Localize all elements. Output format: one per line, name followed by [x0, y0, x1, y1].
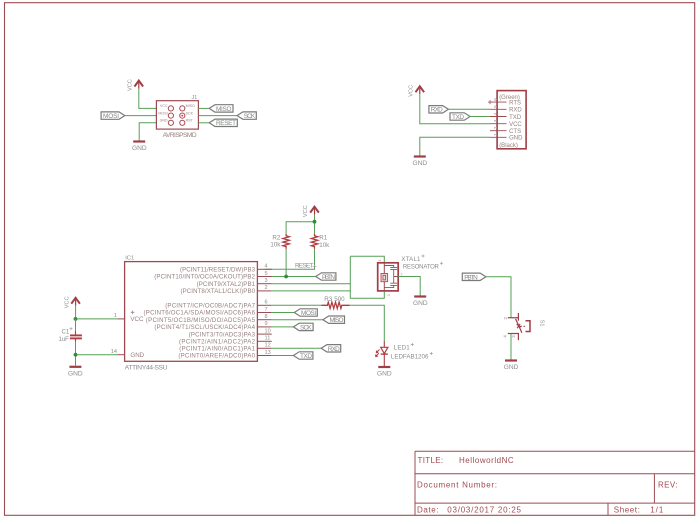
- svg-text:XTAL1: XTAL1: [401, 257, 421, 263]
- wire C1 to pin 14 / GND: [76, 342, 118, 366]
- junction pin14: [74, 353, 78, 357]
- svg-text:12: 12: [265, 343, 271, 349]
- switch S1: [503, 313, 545, 340]
- svg-text:MISO: MISO: [330, 317, 344, 324]
- wire PBTN net (R2 to pin 5): [265, 249, 316, 277]
- net flag MISO (IC): [323, 316, 345, 324]
- svg-text:CTS: CTS: [509, 129, 521, 135]
- node RESET label: [295, 263, 317, 270]
- wire RESET net (R1 to pin 4): [265, 249, 315, 269]
- wire VCC rail to R1 R2: [286, 215, 314, 234]
- ground GND (C1): [68, 367, 83, 378]
- svg-text:14: 14: [111, 349, 117, 355]
- svg-text:RXD: RXD: [509, 108, 522, 114]
- LED LED1 LEDFAB1206: [376, 341, 433, 366]
- svg-text:(PCINT5/OC1B/MISO/DO/ADC5)PA5: (PCINT5/OC1B/MISO/DO/ADC5)PA5: [146, 317, 256, 324]
- svg-text:MOSI: MOSI: [301, 310, 316, 317]
- svg-text:VCC: VCC: [160, 104, 168, 108]
- wire C1 top lead: [75, 319, 77, 332]
- svg-text:8: 8: [265, 314, 268, 320]
- wire MISO from J1: [198, 107, 209, 109]
- net flag PBTN (at IC): [316, 273, 336, 281]
- vcc symbol VCC (AVRISP): [128, 79, 144, 91]
- svg-text:SCK: SCK: [186, 111, 194, 115]
- net flag MOSI (to J1): [101, 112, 125, 120]
- resistor R3 500: [322, 296, 350, 308]
- svg-text:PBTN: PBTN: [322, 274, 335, 281]
- net flag MISO (AVRISP): [209, 105, 233, 113]
- svg-text:TXD: TXD: [509, 115, 522, 121]
- svg-text:10k: 10k: [319, 242, 330, 249]
- svg-text:10: 10: [265, 328, 271, 334]
- svg-text:3: 3: [387, 294, 391, 296]
- svg-text:R2: R2: [272, 234, 280, 241]
- ground GND (LED1): [377, 367, 392, 378]
- SECTION: title block: [415, 451, 695, 515]
- svg-text:4: 4: [493, 112, 499, 115]
- svg-text:(Black): (Black): [499, 143, 518, 149]
- vcc symbol VCC (FTDI): [409, 85, 425, 97]
- wire SCK from J1: [198, 115, 237, 117]
- svg-text:AVRISPSMD: AVRISPSMD: [163, 132, 197, 139]
- svg-text:GND: GND: [68, 370, 83, 377]
- svg-text:R3: R3: [324, 296, 332, 303]
- net flag TXD (FTDI): [450, 113, 470, 121]
- svg-text:RESET: RESET: [216, 120, 236, 127]
- junction PBTN net: [284, 275, 288, 279]
- wire VCC to FTDI pin 3: [420, 94, 490, 124]
- pin numbers: [111, 264, 271, 356]
- net flag MOSI (IC): [294, 309, 317, 317]
- resistor R1 10k: [311, 234, 330, 249]
- svg-text:LED1: LED1: [394, 344, 411, 351]
- resistor R2 10k: [270, 234, 289, 249]
- svg-text:1/1: 1/1: [650, 506, 664, 515]
- wire TXD to FTDI pin 4: [470, 116, 490, 118]
- wire XTAL1 net (pin 2 to resonator top): [272, 256, 385, 291]
- svg-text:RXD: RXD: [431, 107, 443, 114]
- svg-text:GND: GND: [377, 371, 392, 378]
- svg-text:(PCINT6/OC1A/SDA/MOSI/ADC6)PA6: (PCINT6/OC1A/SDA/MOSI/ADC6)PA6: [144, 310, 256, 317]
- wire VCC to IC pin 1: [76, 306, 118, 319]
- pin stubs right: [117, 269, 271, 355]
- svg-text:7: 7: [265, 307, 268, 313]
- svg-text:RESONATOR: RESONATOR: [403, 264, 440, 270]
- svg-text:HelloworldNC: HelloworldNC: [459, 456, 514, 465]
- svg-text:VCC: VCC: [509, 122, 522, 128]
- svg-text:2: 2: [401, 273, 403, 277]
- svg-text:MISO: MISO: [216, 106, 232, 113]
- svg-text:RST: RST: [186, 119, 194, 123]
- svg-text:GND: GND: [413, 160, 428, 167]
- svg-text:3: 3: [493, 119, 499, 122]
- svg-text:(PCINT1/AIN0/ADC1)PA1: (PCINT1/AIN0/ADC1)PA1: [179, 346, 255, 353]
- pin labels: [144, 267, 256, 360]
- wire resonator pin 2 to GND: [398, 277, 420, 296]
- svg-text:VCC: VCC: [303, 205, 309, 217]
- wire RXD to FTDI pin 5: [448, 108, 490, 110]
- svg-text:VCC: VCC: [64, 296, 70, 308]
- svg-text:MOSI: MOSI: [103, 113, 119, 120]
- svg-text:(PCINT8/XTAL1/CLKI)PB0: (PCINT8/XTAL1/CLKI)PB0: [181, 288, 256, 295]
- vcc symbol VCC (IC1 left): [64, 296, 80, 308]
- svg-text:RTS: RTS: [509, 100, 521, 106]
- connector FTDI header: [488, 91, 526, 150]
- net flag RESET (AVRISP): [209, 119, 237, 127]
- svg-text:LEDFAB1206: LEDFAB1206: [391, 354, 429, 361]
- svg-text:R1: R1: [319, 235, 327, 242]
- svg-text:5: 5: [265, 271, 268, 277]
- svg-text:13: 13: [265, 350, 271, 356]
- IC IC1 ATTINY44-SSU: [111, 256, 272, 372]
- svg-text:(PCINT3/T0/ADC3)PA3: (PCINT3/T0/ADC3)PA3: [189, 331, 256, 338]
- svg-text:MISO: MISO: [186, 104, 195, 108]
- svg-text:GND: GND: [413, 300, 428, 307]
- svg-text:REV:: REV:: [658, 480, 678, 489]
- wire pin 8 to MISO flag: [272, 319, 323, 321]
- svg-text:C1: C1: [62, 330, 70, 336]
- wire FTDI GND down: [420, 137, 490, 155]
- wire pin 12 to RXD flag: [272, 347, 321, 349]
- svg-text:1: 1: [493, 133, 499, 136]
- net flag RXD (IC): [321, 345, 341, 353]
- wire S1 to GND: [510, 334, 512, 360]
- wire MOSI to J1: [125, 115, 157, 117]
- svg-text:GND: GND: [132, 145, 147, 152]
- svg-text:ATTINY44-SSU: ATTINY44-SSU: [125, 364, 168, 371]
- svg-text:(PCINT2/AIN1/ADC2)PA2: (PCINT2/AIN1/ADC2)PA2: [179, 339, 256, 346]
- capacitor C1 1uF: [59, 327, 82, 343]
- svg-text:9: 9: [265, 321, 268, 327]
- svg-text:SCK: SCK: [244, 113, 256, 120]
- svg-text:VCC: VCC: [128, 79, 134, 91]
- ground GND (FTDI): [413, 157, 428, 168]
- svg-text:1: 1: [114, 313, 117, 319]
- svg-text:TITLE:: TITLE:: [418, 456, 444, 465]
- net flag SCK (AVRISP): [237, 112, 256, 120]
- svg-text:1: 1: [378, 259, 382, 261]
- wire RESET from J1: [198, 122, 209, 124]
- svg-text:2: 2: [493, 126, 499, 129]
- wire pin 6 to R3: [272, 304, 322, 306]
- net flag SCK (IC): [293, 323, 313, 331]
- svg-text:MOSI: MOSI: [158, 111, 167, 115]
- svg-text:(PCINT11/RESET/DW)PB3: (PCINT11/RESET/DW)PB3: [180, 267, 256, 274]
- ground GND (resonator): [413, 297, 428, 308]
- svg-text:RESET: RESET: [295, 263, 314, 270]
- svg-text:PBTN: PBTN: [464, 274, 478, 281]
- svg-text:500: 500: [334, 296, 345, 303]
- svg-text:(PCINT10/INT0/OC0A/CKOUT)PB2: (PCINT10/INT0/OC0A/CKOUT)PB2: [154, 274, 255, 281]
- svg-text:GND: GND: [130, 352, 144, 359]
- svg-text:J1: J1: [192, 95, 198, 101]
- svg-text:SCK: SCK: [300, 324, 312, 331]
- svg-text:6: 6: [493, 98, 499, 101]
- svg-text:TXD: TXD: [300, 353, 312, 360]
- svg-text:TXD: TXD: [452, 114, 464, 121]
- svg-text:GND: GND: [504, 364, 519, 371]
- svg-text:Document Number:: Document Number:: [417, 480, 497, 489]
- vcc symbol VCC (pullups): [303, 205, 319, 217]
- svg-text:GND: GND: [509, 136, 523, 142]
- wire XTAL2 net (pin 3 to resonator bottom): [272, 256, 385, 298]
- net flag PBTN (switch side): [462, 273, 486, 281]
- svg-text:(PCINT7/ICP/OC0B/ADC7)PA7: (PCINT7/ICP/OC0B/ADC7)PA7: [165, 303, 255, 310]
- svg-text:1uF: 1uF: [59, 337, 70, 343]
- svg-text:Sheet:: Sheet:: [614, 506, 640, 515]
- svg-text:S1: S1: [538, 320, 544, 327]
- svg-text:(PCINT9/XTAL2)PB1: (PCINT9/XTAL2)PB1: [197, 281, 256, 288]
- wire pin 13 to TXD flag: [272, 355, 294, 357]
- junction VCC rail: [313, 220, 317, 224]
- wire pin 9 to SCK flag: [272, 326, 294, 328]
- svg-text:6: 6: [265, 300, 268, 306]
- wire R3 to LED1: [350, 305, 385, 341]
- svg-text:3: 3: [265, 278, 268, 284]
- connector J1 AVRISPSMD: [156, 95, 198, 139]
- svg-text:5: 5: [493, 105, 499, 108]
- svg-text:Date:: Date:: [417, 506, 439, 515]
- svg-text:11: 11: [265, 336, 271, 342]
- ground GND (AVRISP): [132, 142, 147, 153]
- wire pin 7 to MOSI flag: [272, 312, 295, 314]
- svg-text:VCC: VCC: [409, 85, 415, 97]
- net flag RXD (FTDI): [429, 106, 449, 114]
- wire VCC to J1: [139, 89, 157, 109]
- svg-text:(PCINT4/T1/SCL/USCK/ADC4)PA4: (PCINT4/T1/SCL/USCK/ADC4)PA4: [154, 324, 255, 331]
- svg-text:IC1: IC1: [125, 256, 134, 262]
- resonator XTAL1: [378, 255, 443, 297]
- wire J1 GND down: [139, 123, 156, 141]
- ground GND (S1): [504, 361, 519, 372]
- svg-text:GND: GND: [160, 119, 168, 123]
- svg-text:10k: 10k: [270, 242, 281, 249]
- svg-text:RXD: RXD: [328, 346, 340, 353]
- svg-text:(PCINT0/AREF/ADC0)PA0: (PCINT0/AREF/ADC0)PA0: [178, 353, 255, 360]
- net flag TXD (IC): [293, 352, 313, 360]
- svg-text:4: 4: [265, 264, 268, 270]
- junction pin1/C1: [74, 317, 78, 321]
- svg-text:03/03/2017 20:25: 03/03/2017 20:25: [447, 506, 521, 515]
- svg-text:2: 2: [265, 285, 268, 291]
- svg-text:VCC: VCC: [130, 316, 144, 323]
- wire PBTN flag to S1: [486, 277, 511, 318]
